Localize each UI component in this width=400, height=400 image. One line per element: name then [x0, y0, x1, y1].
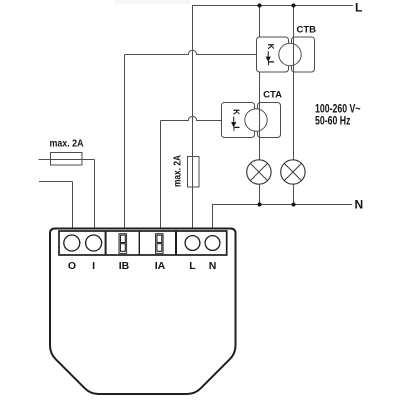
wire branch B (through CTB): [293, 6, 295, 161]
svg-text:100-260 V~: 100-260 V~: [315, 102, 361, 115]
CT clamp CTB: [257, 37, 315, 72]
svg-text:L: L: [266, 61, 275, 66]
svg-text:CTA: CTA: [263, 90, 282, 101]
junction dot L/branch A: [258, 4, 262, 8]
lamp E1: [247, 160, 271, 184]
terminal connector IA: [156, 234, 164, 254]
svg-text:N: N: [355, 198, 364, 212]
fuse F2 max. 2A (horizontal): [51, 153, 83, 166]
wire switch input to I (through fuse F2): [39, 160, 95, 229]
lamp E2: [281, 160, 305, 184]
divider between IB and IA: [138, 231, 140, 255]
svg-text:CTB: CTB: [296, 25, 316, 36]
wire switch output O: [39, 182, 73, 229]
CT clamp CTA: [222, 103, 281, 138]
wire N line: [213, 205, 353, 229]
svg-text:I: I: [92, 260, 95, 272]
svg-text:K: K: [232, 109, 241, 115]
terminal O: [64, 235, 80, 251]
junction dot L/branch B: [292, 4, 296, 8]
wire lamp E2 to N: [293, 184, 295, 204]
wire branch A (through CTA, behind CTB left block): [259, 6, 261, 161]
junction dot N/lamp E1: [258, 203, 262, 207]
svg-text:O: O: [68, 260, 76, 272]
svg-text:L: L: [355, 0, 362, 14]
divider after IA section: [175, 231, 177, 255]
wire L line: [193, 6, 354, 229]
svg-text:K: K: [266, 44, 275, 50]
svg-text:max. 2A: max. 2A: [173, 154, 184, 187]
svg-text:50-60 Hz: 50-60 Hz: [315, 115, 351, 128]
terminal block: [59, 231, 227, 255]
wire IB to CTB (with hop over L feed): [125, 50, 257, 229]
svg-text:L: L: [232, 126, 241, 131]
fuse F1 max. 2A (vertical, on L feed): [188, 157, 200, 188]
svg-text:max. 2A: max. 2A: [50, 139, 85, 150]
faint cropped watermark top edge: [115, 0, 190, 4]
terminal L: [185, 236, 200, 251]
terminal I: [86, 235, 102, 251]
terminal connector IB: [119, 234, 127, 254]
device body (Shelly relay outline): [50, 229, 236, 395]
svg-text:N: N: [209, 260, 217, 272]
svg-text:L: L: [189, 260, 196, 272]
wire IA to CTA (with hop over L feed): [161, 116, 222, 229]
svg-text:IB: IB: [119, 260, 130, 272]
wire lamp E1 to N: [259, 184, 261, 204]
junction dot N/lamp E2: [292, 203, 296, 207]
svg-text:IA: IA: [155, 260, 166, 272]
terminal N: [205, 236, 220, 251]
divider after I section: [105, 231, 107, 255]
